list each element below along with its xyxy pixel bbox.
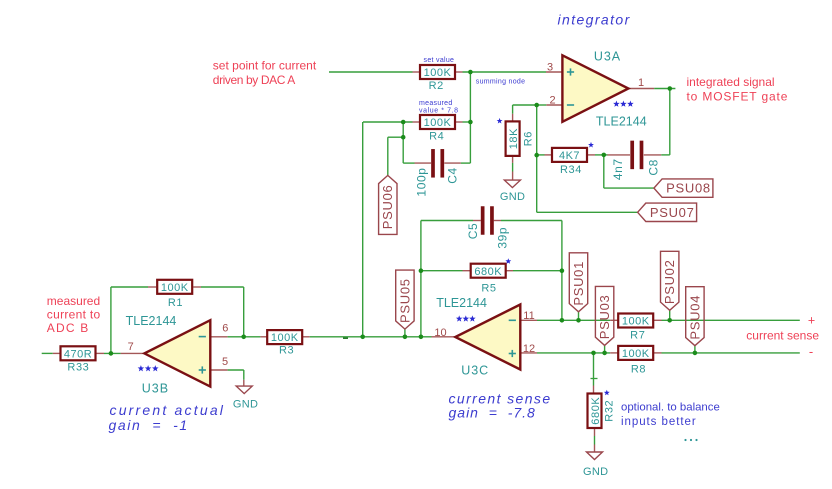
svg-text:current sense: current sense: [746, 329, 819, 343]
svg-text:100K: 100K: [622, 316, 650, 328]
svg-text:R3: R3: [279, 345, 294, 357]
svg-text:TLE2144: TLE2144: [596, 115, 647, 129]
svg-text:set value: set value: [424, 57, 455, 64]
svg-text:R32: R32: [603, 400, 615, 422]
svg-text:PSU05: PSU05: [397, 278, 412, 323]
svg-text:18K: 18K: [508, 128, 520, 149]
svg-text:100K: 100K: [622, 348, 650, 360]
svg-text:680K: 680K: [590, 397, 602, 425]
svg-text:U3B: U3B: [142, 381, 169, 395]
svg-text:12: 12: [523, 343, 535, 355]
svg-text:TLE2144: TLE2144: [126, 314, 177, 328]
svg-text:ADC B: ADC B: [47, 321, 90, 335]
svg-text:measured: measured: [47, 294, 100, 308]
svg-text:driven by DAC A: driven by DAC A: [213, 73, 295, 87]
svg-text:C4: C4: [446, 167, 460, 184]
svg-text:PSU02: PSU02: [662, 259, 677, 304]
svg-text:100p: 100p: [415, 167, 429, 196]
svg-text:value * 7.8: value * 7.8: [419, 107, 459, 114]
svg-text:R4: R4: [429, 131, 444, 143]
svg-text:R2: R2: [429, 80, 444, 92]
svg-text:100K: 100K: [424, 67, 452, 79]
svg-text:1: 1: [638, 77, 644, 89]
svg-text:4n7: 4n7: [611, 158, 625, 180]
svg-text:C8: C8: [647, 159, 661, 176]
svg-text:U3A: U3A: [594, 49, 621, 63]
svg-text:100K: 100K: [271, 332, 299, 344]
svg-text:gain = -1: gain = -1: [109, 417, 189, 433]
svg-text:measured: measured: [419, 100, 453, 107]
svg-text:optional. to balance: optional. to balance: [621, 402, 720, 414]
svg-text:GND: GND: [583, 466, 608, 478]
svg-text:R7: R7: [630, 329, 645, 341]
svg-text:inputs better: inputs better: [621, 416, 697, 428]
svg-text:3: 3: [547, 62, 553, 74]
svg-text:680K: 680K: [474, 266, 502, 278]
svg-text:7: 7: [128, 341, 134, 353]
svg-text:current to: current to: [47, 307, 101, 321]
svg-text:summing node: summing node: [476, 79, 526, 86]
svg-text:PSU07: PSU07: [650, 205, 695, 220]
svg-text:integrated signal: integrated signal: [687, 75, 775, 89]
svg-text:PSU08: PSU08: [666, 181, 711, 196]
svg-text:U3C: U3C: [461, 363, 489, 377]
svg-text:470R: 470R: [64, 348, 92, 360]
svg-text:to MOSFET gate: to MOSFET gate: [687, 90, 789, 104]
svg-text:10: 10: [434, 327, 446, 339]
svg-text:11: 11: [523, 310, 534, 322]
svg-text:integrator: integrator: [558, 11, 631, 27]
svg-text:5: 5: [222, 356, 228, 368]
svg-text:R34: R34: [560, 164, 582, 176]
svg-text:current actual: current actual: [110, 402, 226, 418]
svg-text:R6: R6: [523, 131, 535, 146]
svg-text:6: 6: [222, 322, 228, 334]
svg-text:100K: 100K: [161, 282, 189, 294]
svg-text:R1: R1: [168, 297, 183, 309]
svg-text:PSU04: PSU04: [687, 295, 702, 340]
svg-text:GND: GND: [500, 191, 525, 203]
svg-text:TLE2144: TLE2144: [436, 296, 487, 310]
svg-text:-: -: [809, 344, 813, 359]
svg-text:R33: R33: [67, 361, 89, 373]
svg-text:R8: R8: [631, 364, 646, 376]
svg-text:PSU03: PSU03: [597, 295, 612, 340]
svg-text:2: 2: [549, 95, 555, 107]
svg-text:C5: C5: [466, 223, 480, 240]
svg-text:R5: R5: [481, 283, 496, 295]
svg-text:PSU06: PSU06: [380, 185, 395, 230]
svg-text:4K7: 4K7: [559, 150, 580, 162]
svg-text:PSU01: PSU01: [571, 261, 586, 306]
svg-text:gain = -7.8: gain = -7.8: [449, 405, 536, 421]
svg-text:39p: 39p: [496, 227, 510, 249]
svg-text:GND: GND: [233, 399, 258, 411]
svg-text:100K: 100K: [424, 117, 452, 129]
svg-text:+: +: [808, 314, 815, 328]
svg-text:set point for current: set point for current: [213, 59, 317, 73]
